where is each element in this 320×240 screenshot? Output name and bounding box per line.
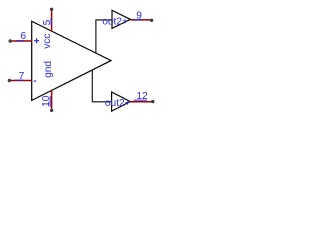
buffer U3 out2+ body <box>112 92 131 111</box>
svg-text:vcc: vcc <box>42 34 53 49</box>
wire from top edge to buffer U2 <box>96 20 112 53</box>
node pin 7 end dot <box>8 79 11 82</box>
node vcc top dot <box>50 8 53 11</box>
plus marker non-inverting input <box>34 38 39 43</box>
pin number 9 label <box>133 10 142 21</box>
node gnd bottom dot <box>50 109 53 112</box>
pin number 5 label (vcc) <box>42 18 53 26</box>
pin number 6 label <box>17 31 27 42</box>
wire pin 12 output net <box>130 101 153 103</box>
wire from bottom edge to buffer U3 <box>92 70 111 102</box>
node pin 6 end dot <box>9 39 12 42</box>
pin number 10 label (gnd) <box>41 95 52 107</box>
wire gnd <box>51 90 53 110</box>
svg-text:gnd: gnd <box>43 61 54 78</box>
svg-text:out2+: out2+ <box>102 17 128 28</box>
op-amp U1 comparator body <box>32 21 111 100</box>
wire pin 9 output net <box>130 19 151 21</box>
pin number 7 label <box>15 71 25 82</box>
node pin 12 end dot <box>151 100 154 103</box>
node pin 9 end dot <box>150 19 153 22</box>
wire vcc supply <box>51 9 53 31</box>
pin number 12 label <box>134 91 148 102</box>
wire pin 6 (non-inverting input net) <box>10 40 32 42</box>
net name vcc <box>42 34 53 49</box>
svg-text:out2+: out2+ <box>105 98 131 109</box>
wire pin 7 (inverting input net) <box>9 80 31 82</box>
minus marker inverting input <box>34 80 37 82</box>
net name gnd <box>43 61 54 78</box>
net name out2+ (bottom) <box>105 98 131 109</box>
net name out2+ (top) <box>102 17 128 28</box>
buffer U2 out2+ body <box>112 10 130 28</box>
